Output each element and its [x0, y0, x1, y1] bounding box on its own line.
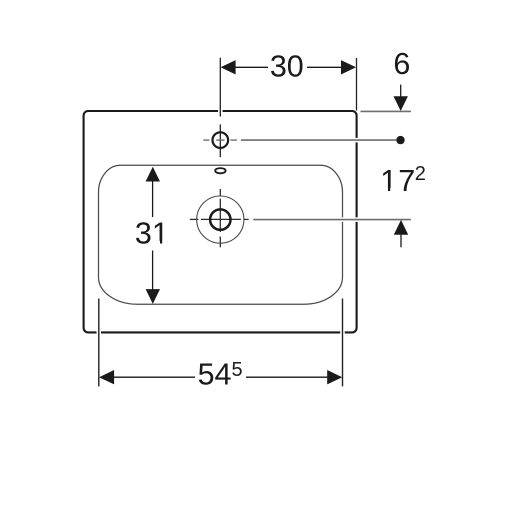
svg-text:30: 30 [270, 50, 304, 84]
reference line (grey) from top edge for dim 6 [361, 110, 411, 112]
washbasin outer outline [84, 111, 357, 332]
reference line (grey) tap-hole level to dot [241, 139, 396, 141]
dim 31 label [135, 217, 169, 251]
reference line (grey) drain level to arrow [253, 219, 411, 221]
drain centerline horizontal dashes [190, 218, 249, 220]
drain inner circle [210, 209, 230, 229]
dim 31 arrow up [146, 167, 160, 182]
dim 17² label [380, 163, 426, 198]
reference line casing (white) top edge [241, 140, 411, 220]
dim 30 dimension line [235, 66, 342, 68]
inner basin outline [99, 165, 343, 304]
svg-text:6: 6 [393, 47, 410, 81]
dim 6 label [393, 47, 410, 81]
dim 6 arrow (down) [394, 96, 408, 111]
svg-text:54: 54 [198, 358, 232, 392]
dim 54⁵ arrow left [99, 370, 114, 384]
svg-text:17: 17 [380, 164, 416, 198]
dim 6 dimension line [400, 85, 402, 98]
dim 54⁵ label [198, 358, 243, 392]
svg-text:31: 31 [135, 217, 169, 251]
dim 31 dimension line [152, 181, 154, 289]
drain centerline vertical dashes [219, 189, 221, 247]
dim 30 arrow left [221, 60, 236, 74]
dim 54⁵ extension line left (with casing over bottom edge) [97, 299, 102, 387]
svg-text:2: 2 [415, 163, 426, 185]
dim 30 label [270, 50, 304, 84]
reference dot at tap-hole level [396, 136, 404, 144]
svg-text:5: 5 [232, 359, 243, 381]
dim 30 arrow right [341, 60, 356, 74]
tap hole circle [213, 132, 229, 148]
dim 54⁵ extension line right (with casing over bottom edge) [340, 299, 345, 387]
dim 54⁵ dimension line [113, 376, 328, 378]
centerline through tap hole (vertical, with casing over top edge) [218, 58, 223, 158]
dim 30: extension line left (tap centerline above) drawn above; extension line right [356, 58, 358, 111]
drain outer circle [197, 196, 244, 243]
tap hole crosshair ticks (grey) [203, 139, 237, 141]
dim 54⁵ arrow right [327, 370, 342, 384]
overflow slot ellipse [215, 168, 225, 173]
dim 17² arrow (up) with tail [394, 220, 408, 247]
dim 31 arrow down [146, 289, 160, 304]
